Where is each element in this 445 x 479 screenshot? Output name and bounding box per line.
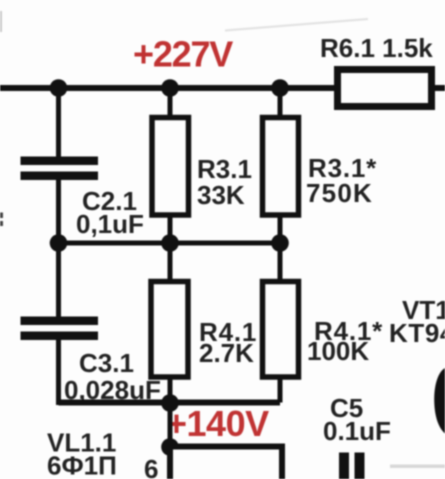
node E: mid rail / R4.1 branch (161, 234, 179, 252)
wire R3.1 bottom (168, 215, 173, 243)
svg-text:0.1uF: 0.1uF (323, 416, 391, 446)
svg-text:750K: 750K (306, 178, 373, 208)
resistor R4.1 (151, 282, 188, 378)
capacitor C2.1 (21, 157, 99, 181)
node C: rail / R3.1* branch (271, 79, 289, 97)
wire R4.1* bottom (278, 377, 283, 403)
wire node D to C3.1 (56, 243, 61, 317)
wire R3.1* bottom (278, 215, 283, 243)
svg-text:KT94: KT94 (389, 318, 445, 348)
wire R4.1* branch top (278, 243, 283, 281)
cropped faint diagonal top (225, 19, 368, 31)
transistor VT1 circle (clipped at edge) (434, 368, 445, 434)
wire C2.1 to node D (56, 180, 61, 243)
capacitor C5 (339, 453, 365, 479)
cropped faint line top-left (0, 11, 2, 32)
node F: mid rail / R4.1* branch (271, 234, 289, 252)
resistor R3.1* (263, 118, 299, 216)
wire R4.1 bottom (168, 377, 173, 403)
resistor R4.1* (263, 282, 299, 378)
svg-text:+227V: +227V (133, 34, 233, 75)
tube VL1.1 anode box (170, 447, 282, 479)
wire stub to VT1 (faint) (390, 465, 445, 469)
node H: grid / anode box corner (161, 438, 179, 456)
wire C3.1 to +140V rail (59, 339, 63, 403)
wire node A to C2.1 (56, 88, 61, 158)
wire grid (pin 6) (168, 403, 173, 447)
wire +227V rail (right stub after R6.1) (432, 85, 445, 91)
node A: rail / C2.1 branch (50, 79, 68, 97)
wire R4.1 branch top (168, 243, 173, 281)
svg-text:C3.1: C3.1 (79, 348, 134, 378)
capacitor C3.1 (21, 317, 99, 341)
svg-text:+140V: +140V (166, 403, 269, 444)
svg-text:6: 6 (144, 454, 158, 479)
node G: +140V rail / grid branch (161, 394, 179, 412)
svg-text:0,1uF: 0,1uF (76, 209, 144, 239)
cropped text fragment at left edge (0, 213, 3, 227)
resistor R3.1 (152, 118, 189, 216)
svg-text:6Ф1П: 6Ф1П (47, 451, 117, 479)
wire +227V rail (left segment) (0, 85, 338, 91)
node D: mid rail / C3.1 branch (50, 234, 68, 252)
svg-text:33K: 33K (197, 180, 245, 210)
wire mid rail (59, 241, 281, 246)
wire +140V rail (59, 400, 281, 406)
svg-text:2.7K: 2.7K (199, 338, 254, 368)
wire R3.1* branch top (278, 88, 283, 117)
wire R3.1 branch top (168, 88, 173, 117)
node B: rail / R3.1 branch (161, 79, 179, 97)
resistor R6.1 (338, 70, 432, 107)
svg-text:100K: 100K (307, 336, 369, 366)
svg-text:R6.1 1.5k: R6.1 1.5k (320, 33, 433, 63)
